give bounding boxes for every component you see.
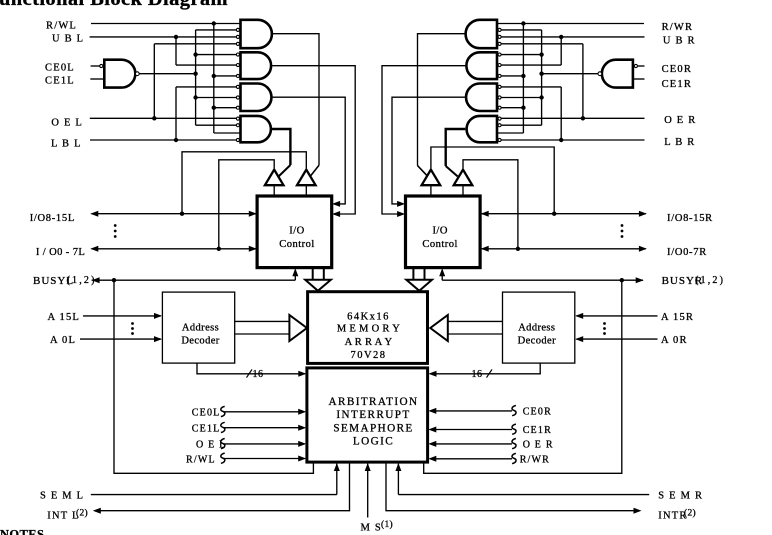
svg-text:INT L: INT L: [47, 511, 79, 522]
svg-text:A 0L: A 0L: [50, 335, 76, 346]
svg-text:(1,2): (1,2): [67, 275, 97, 286]
svg-text:O E R: O E R: [523, 440, 554, 451]
svg-text:CE0R: CE0R: [662, 64, 692, 75]
svg-text:R/WR: R/WR: [520, 455, 550, 466]
svg-text:I/O: I/O: [432, 226, 448, 237]
svg-text:NOTES: NOTES: [0, 527, 44, 535]
svg-text:CE1L: CE1L: [192, 424, 221, 435]
svg-text:Decoder: Decoder: [181, 336, 219, 347]
svg-text:Control: Control: [422, 239, 458, 250]
svg-text:Address: Address: [518, 323, 555, 334]
svg-text:I/O: I/O: [289, 226, 305, 237]
svg-text:(1): (1): [381, 519, 393, 530]
svg-text:unctional Block Diagram: unctional Block Diagram: [0, 0, 228, 10]
svg-text:CE0L: CE0L: [192, 408, 221, 419]
svg-text:CE1R: CE1R: [662, 79, 692, 90]
svg-text:S E M L: S E M L: [40, 491, 84, 502]
svg-text:R/WL: R/WL: [186, 455, 216, 466]
svg-text:ARBITRATION: ARBITRATION: [329, 396, 419, 408]
svg-text:S E M R: S E M R: [658, 491, 703, 502]
svg-text:Control: Control: [279, 239, 315, 250]
svg-text:U B L: U B L: [52, 34, 84, 45]
svg-text:(1,2): (1,2): [695, 275, 725, 286]
svg-text:R/WL: R/WL: [46, 20, 77, 31]
svg-text:O E L: O E L: [51, 117, 83, 128]
svg-text:M E M O R Y: M E M O R Y: [337, 324, 400, 335]
svg-text:I/O8-15R: I/O8-15R: [667, 213, 713, 224]
svg-text:A 0R: A 0R: [661, 335, 688, 346]
svg-text:A 15R: A 15R: [661, 312, 694, 323]
svg-text:64Kx16: 64Kx16: [347, 311, 390, 322]
svg-text:A 15L: A 15L: [48, 312, 81, 323]
svg-text:I/O0-7R: I/O0-7R: [667, 247, 707, 258]
svg-text:SEMAPHORE: SEMAPHORE: [333, 423, 413, 435]
svg-text:L B R: L B R: [664, 137, 695, 148]
svg-text:O E L: O E L: [196, 440, 226, 451]
svg-text:U B R: U B R: [663, 35, 696, 46]
svg-text:CE0L: CE0L: [45, 63, 75, 74]
svg-text:M S: M S: [361, 523, 382, 534]
svg-text:LOGIC: LOGIC: [353, 435, 394, 447]
svg-text:I / O0 - 7L: I / O0 - 7L: [36, 247, 85, 258]
svg-text:R/WR: R/WR: [662, 22, 694, 33]
svg-text:(2): (2): [76, 507, 88, 518]
svg-text:16: 16: [253, 369, 264, 380]
svg-text:I/O8-15L: I/O8-15L: [30, 213, 75, 224]
svg-text:A R R A Y: A R R A Y: [345, 337, 393, 348]
svg-text:CE1L: CE1L: [45, 76, 75, 87]
svg-text:INTERRUPT: INTERRUPT: [336, 409, 410, 421]
svg-text:CE0R: CE0R: [523, 407, 552, 418]
svg-text:70V28: 70V28: [350, 350, 386, 361]
svg-text:Decoder: Decoder: [518, 336, 556, 347]
svg-text:O E R: O E R: [664, 115, 696, 126]
svg-text:L B L: L B L: [51, 139, 82, 150]
svg-text:CE1R: CE1R: [523, 425, 552, 436]
svg-text:(2): (2): [684, 507, 696, 518]
svg-text:16: 16: [472, 369, 483, 380]
svg-text:Address: Address: [182, 323, 219, 334]
